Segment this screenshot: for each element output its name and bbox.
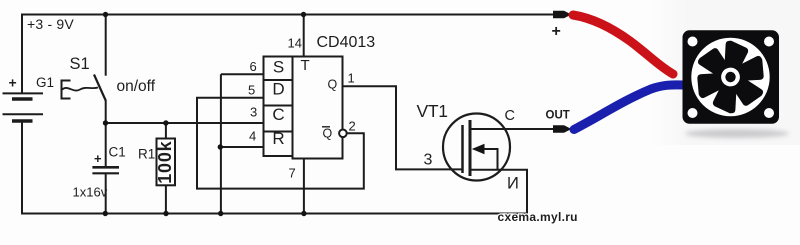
svg-text:C1: C1 [109, 145, 126, 160]
svg-text:4: 4 [249, 129, 256, 144]
svg-text:+: + [94, 151, 102, 166]
svg-text:И: И [507, 175, 519, 193]
svg-text:14: 14 [288, 36, 302, 51]
svg-text:1x16v: 1x16v [73, 185, 108, 200]
svg-text:cxema.myl.ru: cxema.myl.ru [498, 210, 578, 224]
svg-text:3: 3 [250, 105, 257, 120]
svg-text:6: 6 [250, 59, 257, 74]
svg-text:D: D [272, 80, 284, 99]
svg-text:7: 7 [289, 166, 296, 181]
svg-text:2: 2 [349, 119, 356, 134]
svg-text:100k: 100k [155, 140, 175, 183]
svg-text:5: 5 [248, 83, 255, 98]
svg-text:S1: S1 [70, 55, 90, 73]
svg-text:C: C [272, 105, 284, 124]
svg-text:Q: Q [323, 127, 333, 141]
svg-text:R: R [272, 129, 284, 148]
svg-text:+: + [9, 75, 17, 91]
svg-text:1: 1 [348, 71, 355, 86]
svg-text:T: T [301, 57, 310, 74]
svg-text:+: + [552, 23, 561, 40]
svg-text:3: 3 [424, 152, 433, 169]
svg-text:C: C [505, 108, 515, 124]
svg-text:R1: R1 [138, 147, 155, 162]
svg-text:on/off: on/off [117, 78, 156, 95]
svg-text:+3 - 9V: +3 - 9V [27, 16, 74, 32]
svg-text:Q: Q [328, 77, 338, 91]
svg-text:OUT: OUT [546, 110, 570, 122]
svg-text:VT1: VT1 [417, 101, 448, 121]
svg-text:S: S [273, 58, 284, 77]
svg-text:CD4013: CD4013 [317, 34, 376, 51]
svg-text:G1: G1 [36, 75, 54, 90]
